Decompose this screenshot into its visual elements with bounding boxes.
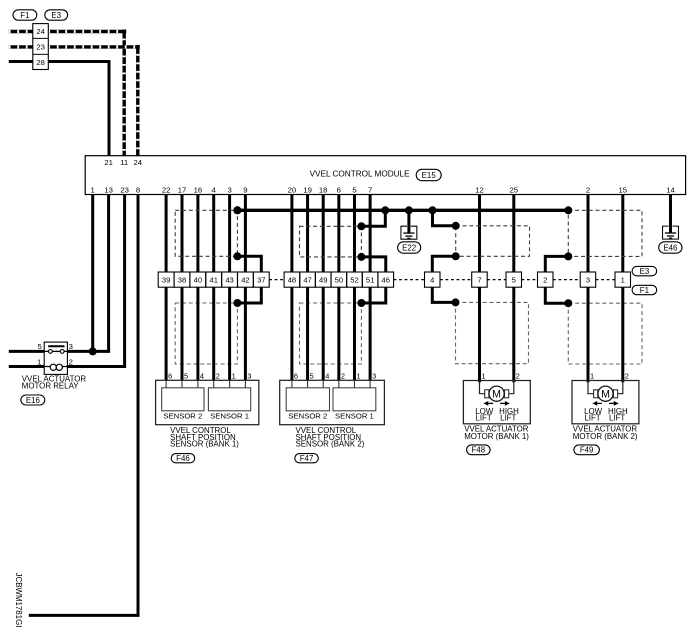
svg-text:50: 50 bbox=[335, 276, 343, 285]
svg-text:6: 6 bbox=[294, 371, 298, 380]
svg-text:25: 25 bbox=[510, 186, 519, 195]
wire connector 39 to sensor bank1 bbox=[165, 287, 168, 380]
svg-text:3: 3 bbox=[247, 371, 251, 380]
VVEL actuator motor bank1 box bbox=[463, 381, 530, 424]
wire module pin 23 down then left to relay pin 2 bbox=[67, 195, 124, 367]
wire module pin 3 to connector 43 bbox=[228, 195, 231, 273]
svg-text:LIFT: LIFT bbox=[584, 413, 600, 422]
svg-text:3: 3 bbox=[372, 371, 376, 380]
svg-text:2: 2 bbox=[586, 186, 590, 195]
wire connector 42 to sensor bank1 bbox=[244, 287, 247, 380]
svg-text:1: 1 bbox=[621, 276, 625, 285]
shield box bank1 sensor upper (dashed) bbox=[175, 210, 237, 256]
svg-text:15: 15 bbox=[619, 186, 628, 195]
node ground bus / bank2 sensor shield bbox=[381, 206, 389, 214]
wire stub into sensor element bbox=[181, 380, 183, 388]
svg-text:4: 4 bbox=[430, 276, 434, 285]
svg-text:48: 48 bbox=[288, 276, 296, 285]
wire 28 right segment to module pin 21 bbox=[48, 62, 109, 156]
wire relay pin 3 to junction node bbox=[67, 350, 92, 353]
svg-text:40: 40 bbox=[194, 276, 202, 285]
shield node bank1 sensor bottom bbox=[233, 252, 241, 260]
svg-text:E46: E46 bbox=[663, 243, 678, 252]
wire stub into sensor element bbox=[322, 380, 324, 388]
svg-text:24: 24 bbox=[36, 27, 45, 36]
svg-text:LIFT: LIFT bbox=[500, 413, 516, 422]
svg-text:7: 7 bbox=[477, 276, 481, 285]
svg-text:43: 43 bbox=[225, 276, 233, 285]
svg-text:23: 23 bbox=[120, 186, 129, 195]
svg-text:2: 2 bbox=[69, 357, 73, 366]
svg-text:22: 22 bbox=[162, 186, 171, 195]
svg-text:F49: F49 bbox=[580, 446, 594, 455]
shield box bank2 motor lower (dashed) bbox=[568, 303, 642, 364]
svg-text:5: 5 bbox=[184, 371, 188, 380]
wire stub into sensor element bbox=[229, 380, 231, 388]
connector label F48 bbox=[467, 445, 491, 455]
connector label F49 bbox=[574, 445, 600, 455]
wire stub into sensor element bbox=[197, 380, 199, 388]
wire connector 43 to sensor bank1 bbox=[228, 287, 231, 380]
svg-text:7: 7 bbox=[368, 186, 372, 195]
node ground bus / bank1 motor shield bbox=[429, 206, 437, 214]
svg-text:6: 6 bbox=[337, 186, 341, 195]
shield node bank1 motor bottom bbox=[452, 252, 460, 260]
wire shield bank2 motor to connector 2 bbox=[545, 256, 568, 272]
connector label F1 right bbox=[632, 285, 657, 294]
connector label E16 bbox=[21, 395, 45, 405]
relay coil bbox=[44, 366, 67, 368]
corner patch wire 23 bbox=[136, 45, 140, 49]
svg-text:MOTOR (BANK 2): MOTOR (BANK 2) bbox=[573, 432, 638, 441]
wire module pin 6 to connector 50 bbox=[337, 195, 340, 273]
svg-text:14: 14 bbox=[666, 186, 675, 195]
svg-text:SENSOR 1: SENSOR 1 bbox=[335, 411, 374, 420]
VVEL control shaft position sensor bank1 F46 outer box bbox=[156, 380, 259, 424]
junction node relay/pin1/pin13 bbox=[89, 347, 97, 355]
svg-text:2: 2 bbox=[516, 371, 520, 380]
wire connector 48 to sensor bank2 bbox=[290, 287, 293, 380]
sensor bank1 element SENSOR 2 bbox=[162, 388, 204, 411]
svg-text:12: 12 bbox=[475, 186, 484, 195]
svg-text:F46: F46 bbox=[176, 454, 190, 463]
wire stub into sensor element bbox=[213, 380, 215, 388]
ground label E46 bbox=[659, 242, 682, 253]
wire module pin 14 to E46 ground bbox=[669, 195, 672, 234]
shield node bank2 motor lower bbox=[564, 299, 572, 307]
shield node bank1 sensor lower bbox=[233, 299, 241, 307]
svg-text:49: 49 bbox=[319, 276, 327, 285]
shield node bank2 motor bottom bbox=[564, 252, 572, 260]
svg-text:37: 37 bbox=[257, 276, 265, 285]
wire connector 49 to sensor bank2 bbox=[322, 287, 325, 380]
motor bank1 low-lift arrow bbox=[487, 402, 493, 404]
svg-text:2: 2 bbox=[216, 371, 220, 380]
svg-text:41: 41 bbox=[209, 276, 217, 285]
svg-text:1: 1 bbox=[232, 371, 236, 380]
wire module pin 4 to connector 41 bbox=[212, 195, 215, 273]
motor bank2 high-lift arrow bbox=[609, 402, 615, 404]
wire shield bank1 sensor to connector 37 bbox=[237, 256, 261, 272]
shield box bank2 motor upper (dashed) bbox=[568, 210, 642, 256]
wire module pin 25 to connector 5 bbox=[512, 195, 515, 273]
svg-text:3: 3 bbox=[69, 342, 73, 351]
svg-text:1: 1 bbox=[482, 371, 486, 380]
connector E3 (top left oval) bbox=[45, 10, 68, 20]
relay contact terminals bbox=[44, 350, 67, 352]
svg-text:1: 1 bbox=[590, 371, 594, 380]
shield node bank2 sensor top bbox=[357, 222, 365, 230]
svg-text:3: 3 bbox=[227, 186, 231, 195]
wire 24 left segment (dashed) bbox=[9, 30, 33, 33]
svg-text:1: 1 bbox=[37, 357, 41, 366]
shield node bank2 sensor lower bbox=[357, 299, 365, 307]
svg-text:SENSOR 2: SENSOR 2 bbox=[163, 411, 202, 420]
svg-text:1: 1 bbox=[91, 186, 95, 195]
node bank1 sensor shield on bus bbox=[233, 206, 241, 214]
shield box bank2 sensor upper (dashed) bbox=[300, 226, 362, 257]
wire module pin 2 to connector 3 bbox=[587, 195, 590, 273]
connector junction box pins 24/23/28 bbox=[33, 24, 49, 70]
svg-text:11: 11 bbox=[120, 158, 128, 167]
svg-text:F48: F48 bbox=[472, 446, 486, 455]
svg-text:E3: E3 bbox=[51, 11, 61, 20]
connector pin box 5 bbox=[506, 272, 522, 287]
svg-text:13: 13 bbox=[104, 186, 113, 195]
wire shield bank1 motor to connector 4 bbox=[432, 256, 455, 272]
svg-text:52: 52 bbox=[350, 276, 358, 285]
svg-text:4: 4 bbox=[200, 371, 204, 380]
wire connector 37 to lower shield bank1 bbox=[237, 287, 261, 303]
shield ground bus wire bbox=[237, 209, 568, 212]
svg-text:17: 17 bbox=[178, 186, 187, 195]
svg-text:51: 51 bbox=[366, 276, 374, 285]
wire connector to motor bank2 pin 2 bbox=[621, 287, 624, 382]
svg-text:SENSOR 2: SENSOR 2 bbox=[288, 411, 327, 420]
svg-text:MOTOR RELAY: MOTOR RELAY bbox=[22, 382, 79, 391]
connector row bank2 sensor pins 48-46 bbox=[284, 272, 300, 287]
wire stub into sensor element bbox=[369, 380, 371, 388]
svg-text:LIFT: LIFT bbox=[609, 413, 625, 422]
connector row bank1 sensor pins 39-37 bbox=[158, 272, 174, 287]
svg-text:F1: F1 bbox=[640, 286, 649, 295]
node ground bus end / bank2 motor shield bbox=[564, 206, 572, 214]
wire module pin 9 to connector 42 bbox=[244, 195, 247, 273]
svg-text:8: 8 bbox=[136, 186, 140, 195]
shield box bank1 motor lower (dashed) bbox=[456, 302, 529, 363]
wire connector 47 to sensor bank2 bbox=[306, 287, 309, 380]
svg-text:M: M bbox=[492, 389, 501, 401]
svg-text:4: 4 bbox=[325, 371, 329, 380]
wire module pin 18 to connector 49 bbox=[322, 195, 325, 273]
svg-text:F47: F47 bbox=[300, 454, 314, 463]
connector pin box 7 bbox=[472, 272, 488, 287]
svg-text:5: 5 bbox=[512, 276, 516, 285]
svg-text:E22: E22 bbox=[402, 243, 416, 252]
wire module pin 17 to connector 38 bbox=[181, 195, 184, 273]
wire connector 41 to sensor bank1 bbox=[212, 287, 215, 380]
svg-text:JCBWM1781GI: JCBWM1781GI bbox=[14, 573, 23, 628]
wire connector 50 to sensor bank2 bbox=[337, 287, 340, 380]
wire 23 left segment (dashed) bbox=[9, 45, 33, 48]
wire module pin 13 down then left to relay pin 3 row bbox=[91, 195, 109, 352]
motor M bank1 symbol bbox=[489, 386, 504, 401]
svg-text:24: 24 bbox=[134, 158, 143, 167]
connector pin box 4 bbox=[425, 272, 441, 287]
wire 28 left segment bbox=[9, 60, 33, 63]
wire connector to motor bank1 pin 2 bbox=[512, 287, 515, 382]
wire connector 46 to lower shield bank2 bbox=[361, 287, 385, 303]
svg-text:F1: F1 bbox=[20, 11, 29, 20]
wire module pin 5 to connector 52 bbox=[353, 195, 356, 273]
sensor bank2 element SENSOR 2 bbox=[286, 388, 329, 411]
corner patch wire 24 bbox=[122, 30, 126, 34]
wire connector 2 to lower shield bank2 motor bbox=[545, 287, 568, 303]
svg-text:MOTOR (BANK 1): MOTOR (BANK 1) bbox=[464, 432, 529, 441]
svg-text:42: 42 bbox=[241, 276, 249, 285]
svg-text:5: 5 bbox=[352, 186, 356, 195]
motor M bank1 brushes bbox=[485, 390, 489, 398]
svg-text:E16: E16 bbox=[26, 396, 41, 405]
wire connector 4 to lower shield bank1 motor bbox=[432, 287, 455, 302]
connector pin box 1 bbox=[615, 272, 631, 287]
svg-text:VVEL CONTROL MODULE: VVEL CONTROL MODULE bbox=[310, 170, 410, 179]
connector pin box 2 bbox=[538, 272, 554, 287]
svg-text:23: 23 bbox=[36, 42, 45, 51]
wire stub into sensor element bbox=[338, 380, 340, 388]
wire module pin 20 to connector 48 bbox=[290, 195, 293, 273]
wire module pin 1 down to relay junction bbox=[91, 195, 94, 352]
svg-text:20: 20 bbox=[288, 186, 297, 195]
svg-text:SENSOR 1: SENSOR 1 bbox=[210, 411, 249, 420]
wire left stub to relay pin 5 bbox=[9, 350, 44, 353]
svg-text:M: M bbox=[601, 389, 610, 401]
svg-text:2: 2 bbox=[543, 276, 547, 285]
VVEL control shaft position sensor bank2 F47 outer box bbox=[280, 380, 385, 424]
wire ground bus jog to bank2 sensor shield bbox=[361, 210, 385, 226]
svg-text:18: 18 bbox=[319, 186, 328, 195]
wire connector 52 to sensor bank2 bbox=[353, 287, 356, 380]
wire connector to motor bank1 pin 1 bbox=[478, 287, 481, 382]
connector label F46 bbox=[171, 454, 195, 463]
wire stub into sensor element bbox=[291, 380, 293, 388]
wire stub into sensor element bbox=[244, 380, 246, 388]
motor M bank2 brushes bbox=[594, 390, 598, 398]
shield node bank1 sensor top bbox=[233, 206, 241, 214]
shield node bank1 motor lower bbox=[452, 298, 460, 306]
svg-text:SENSOR (BANK 1): SENSOR (BANK 1) bbox=[170, 439, 239, 448]
shield box bank2 sensor lower (dashed) bbox=[300, 303, 362, 364]
svg-text:16: 16 bbox=[194, 186, 203, 195]
motor bank2 low-lift arrow bbox=[596, 402, 602, 404]
wire 24 right segment to module pin 11 (dashed) bbox=[48, 30, 125, 33]
svg-text:38: 38 bbox=[178, 276, 186, 285]
wire module pin 7 to connector 51 bbox=[369, 195, 372, 273]
ground symbol E46 bbox=[663, 226, 679, 239]
svg-text:21: 21 bbox=[104, 158, 113, 167]
wire stub into sensor element bbox=[165, 380, 167, 388]
wire stub into sensor element bbox=[307, 380, 309, 388]
wire module pin 12 to connector 7 bbox=[478, 195, 481, 273]
connector label E15 bbox=[416, 169, 441, 180]
ground label E22 bbox=[398, 242, 421, 253]
wire module pin 15 to connector 1 bbox=[621, 195, 624, 273]
svg-text:3: 3 bbox=[586, 276, 590, 285]
wire left stub to relay pin 1 bbox=[9, 365, 44, 368]
sensor bank2 element SENSOR 1 bbox=[333, 388, 376, 411]
svg-text:5: 5 bbox=[310, 371, 314, 380]
wire ground bus jog to bank1 motor shield bbox=[433, 210, 456, 226]
VVEL actuator motor relay E16 box bbox=[44, 342, 67, 374]
connector label F47 bbox=[295, 454, 319, 463]
ground symbol E22 bbox=[401, 226, 417, 239]
svg-text:E3: E3 bbox=[640, 267, 650, 276]
connector label E3 right bbox=[632, 266, 657, 275]
VVEL actuator motor bank2 box bbox=[572, 381, 639, 424]
wire 23 right segment to module pin 24 (dashed) bbox=[48, 45, 139, 48]
svg-text:19: 19 bbox=[303, 186, 312, 195]
wire module pin 19 to connector 47 bbox=[306, 195, 309, 273]
svg-text:1: 1 bbox=[356, 371, 360, 380]
wire connector 51 to sensor bank2 bbox=[369, 287, 372, 380]
svg-text:28: 28 bbox=[36, 58, 45, 67]
svg-text:9: 9 bbox=[243, 186, 247, 195]
wire ground bus to E22 ground bbox=[407, 210, 410, 233]
svg-text:47: 47 bbox=[303, 276, 311, 285]
wire module pin 16 to connector 40 bbox=[196, 195, 199, 273]
svg-text:6: 6 bbox=[168, 371, 172, 380]
svg-text:39: 39 bbox=[162, 276, 170, 285]
wire module pin 22 to connector 39 bbox=[165, 195, 168, 273]
wire connector to motor bank2 pin 1 bbox=[587, 287, 590, 382]
wire connector 40 to sensor bank1 bbox=[196, 287, 199, 380]
wire shield bank2 sensor to connector 46 bbox=[361, 257, 385, 272]
VVEL control module E15 box bbox=[85, 156, 685, 195]
connector F1 (top left oval) bbox=[13, 10, 37, 20]
wire stub into sensor element bbox=[353, 380, 355, 388]
dashed harness row line bbox=[269, 279, 284, 281]
motor bank1 high-lift arrow bbox=[500, 402, 506, 404]
shield box bank1 sensor lower (dashed) bbox=[175, 303, 237, 364]
shield node bank1 motor top bbox=[452, 222, 460, 230]
svg-text:E15: E15 bbox=[422, 171, 437, 180]
svg-text:SENSOR (BANK 2): SENSOR (BANK 2) bbox=[296, 439, 365, 448]
sensor bank1 element SENSOR 1 bbox=[208, 388, 250, 411]
relay contact bar bbox=[48, 345, 64, 347]
wire module pin 8 down to bottom left corner bbox=[29, 195, 138, 616]
shield box bank1 motor upper (dashed) bbox=[456, 226, 530, 256]
svg-text:46: 46 bbox=[382, 276, 390, 285]
svg-text:2: 2 bbox=[341, 371, 345, 380]
svg-text:2: 2 bbox=[625, 371, 629, 380]
svg-text:LIFT: LIFT bbox=[475, 413, 491, 422]
svg-text:5: 5 bbox=[37, 342, 41, 351]
wire connector 38 to sensor bank1 bbox=[181, 287, 184, 380]
svg-text:4: 4 bbox=[212, 186, 217, 195]
motor M bank2 symbol bbox=[598, 386, 613, 401]
connector pin box 3 bbox=[580, 272, 596, 287]
node ground bus to E22 tap bbox=[405, 206, 413, 214]
shield node bank2 sensor bottom bbox=[357, 253, 365, 261]
